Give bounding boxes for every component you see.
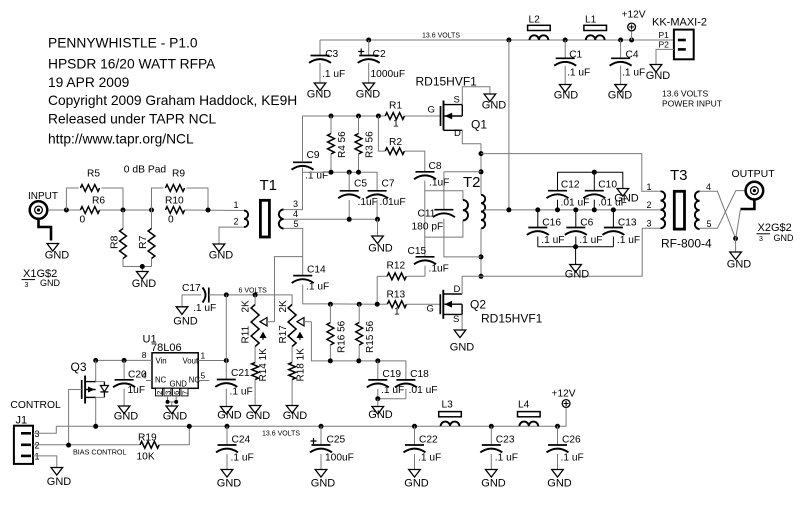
svg-text:.1 uF: .1 uF — [567, 67, 590, 78]
node supply drop — [506, 38, 511, 43]
capacitor C9 — [293, 161, 312, 163]
capacitor C10 — [593, 172, 595, 191]
svg-text:C4: C4 — [626, 49, 639, 60]
svg-text:1uF: 1uF — [128, 385, 146, 396]
diode Q3 body — [103, 382, 105, 398]
svg-text:C8: C8 — [429, 161, 442, 172]
wire J1 pin2 bias — [33, 444, 141, 446]
svg-text:NC: NC — [155, 375, 167, 384]
wire T1 pin3 — [284, 168, 303, 210]
svg-text:C5: C5 — [354, 179, 367, 190]
svg-text:C15: C15 — [408, 246, 427, 257]
svg-text:2: 2 — [35, 441, 40, 451]
capacitor C6 — [575, 210, 577, 228]
wire P2 to ground — [656, 49, 674, 64]
node C11 bottom tap — [479, 254, 484, 259]
resistor R8 — [122, 210, 124, 229]
node C10 top — [592, 170, 597, 175]
svg-text:GND: GND — [450, 342, 475, 354]
wire Q3 source to rail — [95, 397, 97, 426]
inductor L1 — [584, 25, 607, 30]
wire T2 rail top — [480, 144, 482, 195]
capacitor C7 — [368, 190, 387, 192]
svg-text:C11: C11 — [418, 209, 436, 220]
svg-text:2K: 2K — [278, 300, 289, 313]
svg-text:2: 2 — [234, 217, 239, 227]
ground C17 — [176, 307, 188, 315]
svg-text:T3: T3 — [670, 167, 688, 184]
svg-text:T2: T2 — [463, 174, 481, 191]
svg-text:G: G — [428, 105, 435, 116]
wire J1 pin3 — [33, 426, 56, 433]
svg-text:1000uF: 1000uF — [371, 69, 406, 80]
svg-text:D: D — [454, 128, 461, 139]
ic U1 78L06 box — [152, 353, 198, 389]
svg-text:0: 0 — [168, 215, 174, 226]
wire R11 wiper to pin5 — [275, 257, 303, 322]
resistor R10 — [165, 207, 184, 214]
wire Q3 gate — [69, 390, 82, 446]
svg-text:R1: R1 — [389, 101, 402, 112]
svg-text:.1 uF: .1 uF — [561, 453, 584, 464]
wire R10 right — [185, 209, 245, 212]
svg-text:POWER INPUT: POWER INPUT — [662, 99, 722, 109]
node C6 top — [573, 207, 578, 212]
wire T2 rail bottom — [480, 228, 482, 276]
node Vout junction — [224, 358, 229, 363]
svg-text:.1 uF: .1 uF — [306, 282, 329, 293]
svg-text:S: S — [453, 314, 459, 325]
svg-text:GND: GND — [368, 243, 393, 255]
svg-text:R3 56: R3 56 — [365, 131, 376, 158]
svg-text:P1: P1 — [659, 30, 670, 40]
svg-text:C9: C9 — [307, 150, 320, 161]
wire 6V rail — [209, 295, 292, 305]
capacitor C3 — [319, 40, 321, 56]
resistor R18 — [291, 347, 293, 363]
node R15 bottom — [356, 358, 361, 363]
svg-text:RF-800-4: RF-800-4 — [661, 237, 712, 251]
svg-text:4: 4 — [293, 209, 298, 219]
svg-text:Q1: Q1 — [471, 118, 487, 132]
svg-text:GND: GND — [565, 269, 590, 281]
node C13 top — [611, 207, 616, 212]
wire Vout riser to 6V rail — [225, 295, 227, 361]
svg-text:GND: GND — [45, 250, 70, 262]
ground cap bank — [570, 265, 582, 273]
ground C3 — [314, 83, 326, 91]
ground C19 C18 — [372, 407, 384, 415]
wire Q2 gate rail — [330, 303, 377, 305]
node T1 in — [206, 208, 211, 213]
transformer T1 core — [260, 200, 269, 237]
svg-text:C3: C3 — [325, 49, 338, 60]
ground R18 — [286, 406, 298, 414]
svg-text:Released under TAPR NCL: Released under TAPR NCL — [48, 112, 217, 127]
capacitor C24 — [226, 426, 228, 445]
transformer T3 secondary — [695, 191, 700, 229]
transistor Q3 — [81, 380, 83, 399]
ground C20 — [118, 406, 130, 414]
transistor Q1 — [440, 106, 442, 126]
svg-text:5: 5 — [294, 219, 299, 229]
svg-text:.1 uF: .1 uF — [381, 385, 404, 396]
node C12 bottom — [555, 207, 560, 212]
transformer T2 coupling winding — [463, 200, 468, 220]
capacitor C25 — [320, 426, 322, 445]
svg-text:GND: GND — [481, 478, 506, 490]
node C10 bottom — [592, 207, 597, 212]
node C7 bottom — [375, 217, 380, 222]
node pad gnd — [140, 264, 145, 269]
svg-text:GND: GND — [368, 409, 393, 421]
svg-text:GND: GND — [114, 411, 139, 423]
svg-text:C12: C12 — [561, 180, 580, 191]
svg-text:19 APR 2009: 19 APR 2009 — [48, 75, 130, 90]
wire output gnd stub — [735, 239, 737, 253]
svg-text:GND: GND — [209, 250, 234, 262]
svg-text:S: S — [454, 95, 460, 106]
svg-text:R4 56: R4 56 — [337, 131, 348, 158]
svg-text:GND: GND — [47, 476, 72, 488]
svg-text:10K: 10K — [137, 452, 155, 463]
svg-text:R5: R5 — [87, 169, 100, 180]
ground cap bracket — [617, 189, 629, 197]
node C5 top — [347, 170, 352, 175]
wire Q2 drain to T3 pin3 — [481, 228, 661, 276]
svg-text:1: 1 — [393, 119, 399, 130]
capacitor C8 — [416, 171, 435, 173]
node output gnd — [733, 236, 738, 241]
svg-text:.1 uF: .1 uF — [322, 69, 345, 80]
svg-text:GND: GND — [608, 89, 633, 101]
ground U1 — [166, 406, 178, 414]
wire input to pad — [48, 209, 81, 211]
power flag +12V top — [628, 23, 636, 31]
wire cap bank bottom — [538, 246, 614, 248]
ground C4 — [615, 85, 627, 93]
svg-text:8: 8 — [142, 350, 147, 360]
node Q3 drain — [93, 358, 98, 363]
svg-text:7: 7 — [180, 391, 189, 395]
capacitor C5 — [348, 172, 350, 191]
svg-text:1: 1 — [201, 351, 206, 361]
connector J1 — [14, 426, 33, 464]
svg-text:RD15HVF1: RD15HVF1 — [481, 312, 543, 326]
svg-text:C18: C18 — [410, 369, 429, 380]
svg-text:13.6 VOLTS: 13.6 VOLTS — [262, 431, 300, 438]
svg-text:GND: GND — [40, 278, 61, 288]
node R3 bottom — [356, 170, 361, 175]
svg-text:L2: L2 — [529, 15, 541, 26]
svg-text:BIAS CONTROL: BIAS CONTROL — [73, 448, 127, 457]
svg-text:Vout: Vout — [183, 357, 199, 366]
wire Q1 drain — [462, 130, 481, 144]
node R12 bottom — [375, 302, 380, 307]
svg-text:R8: R8 — [109, 235, 121, 249]
ground pad — [137, 272, 149, 280]
svg-text:.01 uF: .01 uF — [598, 197, 627, 208]
svg-text:180 pF: 180 pF — [412, 222, 444, 233]
resistor R5 — [80, 185, 99, 192]
svg-text:GND: GND — [173, 316, 198, 328]
wire Vout line — [198, 360, 226, 362]
ground output — [730, 252, 742, 260]
svg-text:.1uF: .1uF — [358, 197, 378, 208]
svg-text:R10: R10 — [165, 196, 184, 207]
capacitor C12 — [557, 172, 559, 191]
node Vout riser — [224, 292, 229, 297]
svg-text:3: 3 — [35, 429, 40, 439]
svg-text:.1 uF: .1 uF — [579, 235, 602, 246]
ground Q1 source — [484, 94, 496, 102]
svg-text:.1 uF: .1 uF — [495, 453, 518, 464]
svg-text:GND: GND — [554, 89, 579, 101]
wire R5 branch — [66, 188, 78, 210]
wire R12 drop — [376, 276, 378, 304]
svg-text:GND: GND — [217, 478, 242, 490]
svg-text:G: G — [427, 304, 434, 315]
svg-text:D: D — [454, 284, 461, 295]
svg-text:2K: 2K — [241, 300, 252, 313]
svg-text:INPUT: INPUT — [28, 191, 58, 202]
resistor R7 — [151, 210, 153, 229]
wire U1 pin5 stub — [198, 380, 209, 382]
wire T1 pin4 — [284, 218, 378, 220]
svg-text:GND: GND — [307, 89, 332, 101]
svg-text:.01 uF: .01 uF — [561, 197, 590, 208]
transformer T2 main winding — [481, 195, 485, 229]
svg-text:5: 5 — [201, 371, 206, 381]
svg-text:R14 1K: R14 1K — [258, 348, 269, 382]
wire +12V stub — [631, 31, 633, 40]
svg-text:GND: GND — [163, 411, 188, 423]
svg-text:C2: C2 — [373, 49, 386, 60]
svg-text:R19: R19 — [138, 433, 157, 444]
node C19 bottom — [375, 396, 380, 401]
svg-text:CONTROL: CONTROL — [10, 400, 61, 411]
inductor L2 — [528, 25, 551, 30]
svg-text:GND: GND — [283, 410, 308, 422]
wire 13.6V bottom rail — [56, 425, 566, 427]
svg-text:GND: GND — [547, 478, 572, 490]
svg-text:.1 uF: .1 uF — [622, 67, 645, 78]
svg-text:http://www.tapr.org/NCL: http://www.tapr.org/NCL — [48, 132, 194, 147]
svg-text:C19: C19 — [382, 369, 401, 380]
svg-text:C16: C16 — [542, 218, 561, 229]
svg-text:.1uF: .1uF — [429, 264, 449, 275]
svg-text:Vin: Vin — [156, 357, 167, 366]
wire Q3 drain up — [95, 360, 97, 381]
ground C26 — [552, 470, 564, 478]
svg-text:+12V: +12V — [622, 10, 646, 21]
transformer T1 primary — [244, 211, 248, 228]
node R4 bottom — [329, 170, 334, 175]
svg-text:.1 uF: .1 uF — [617, 235, 640, 246]
svg-text:C21: C21 — [231, 368, 250, 379]
svg-text:1: 1 — [35, 452, 40, 462]
capacitor C19 — [377, 361, 379, 380]
wire Q2 drain — [462, 276, 481, 294]
ground C24 — [221, 470, 233, 478]
svg-text:.1 uF: .1 uF — [231, 453, 254, 464]
capacitor C11 — [444, 171, 481, 173]
resistor R15 — [358, 304, 360, 322]
svg-text:3: 3 — [293, 199, 298, 209]
inductor L4 — [518, 412, 541, 417]
svg-text:1: 1 — [234, 200, 239, 210]
ground T1 pin2 — [213, 244, 225, 252]
node pad node1 — [121, 208, 126, 213]
potentiometer R11 — [254, 295, 256, 305]
svg-text:GND: GND — [246, 410, 271, 422]
capacitor C14 — [293, 275, 312, 277]
node Q3 gate bias — [66, 443, 71, 448]
node C5 bottom — [347, 217, 352, 222]
inductor L3 — [439, 412, 462, 417]
connector KK-MAXI-2 — [674, 30, 694, 60]
resistor R2 — [378, 116, 385, 151]
node cap bank gnd — [573, 244, 578, 249]
wire U1 pin4 stub — [146, 380, 152, 382]
svg-text:6 VOLTS: 6 VOLTS — [239, 288, 268, 295]
wire J1 pin1 gnd — [33, 456, 57, 468]
resistor R9 — [165, 185, 184, 192]
wire 13.6V top rail — [320, 39, 674, 41]
ground C21 — [221, 407, 233, 415]
node Q3 source rail — [93, 424, 98, 429]
resistor R4 — [330, 116, 332, 134]
ground C23 — [486, 470, 498, 478]
resistor R19 — [140, 441, 159, 448]
node C20 top — [122, 358, 127, 363]
wire bias feed line — [330, 361, 406, 380]
ground input connector — [47, 244, 59, 252]
svg-text:R11: R11 — [241, 325, 252, 343]
wire C17 gnd side — [182, 295, 201, 307]
transistor Q2 — [439, 294, 441, 314]
svg-text:.1 uF: .1 uF — [230, 387, 253, 398]
wire U1 gnd pins — [168, 396, 177, 402]
node R16 bottom — [328, 358, 333, 363]
wire R17 wiper drop — [311, 322, 330, 361]
potentiometer R17 — [288, 305, 296, 347]
svg-text:C17: C17 — [182, 283, 201, 294]
svg-text:C6: C6 — [580, 218, 593, 229]
power flag +12V bottom — [562, 400, 570, 408]
transformer T1 secondary — [279, 210, 284, 229]
capacitor C4 — [620, 40, 622, 58]
ground Q2 source — [454, 330, 466, 338]
node R2 tap — [376, 114, 381, 119]
node input junction — [64, 208, 69, 213]
svg-text:R7: R7 — [137, 235, 149, 249]
wire C8 bottom loop — [425, 181, 463, 200]
ground J1 pin1 — [51, 468, 63, 476]
svg-text:R9: R9 — [172, 169, 185, 180]
svg-text:2: 2 — [647, 200, 652, 210]
svg-text:GND: GND — [132, 278, 157, 290]
capacitor C18 — [396, 379, 415, 381]
transformer T3 primary — [661, 191, 666, 228]
wire Q1 gate rail — [303, 115, 386, 117]
node R19 rail — [187, 424, 192, 429]
svg-text:1: 1 — [394, 307, 400, 318]
svg-text:R12: R12 — [387, 261, 406, 272]
capacitor C15 — [416, 256, 435, 258]
transformer T3 core — [674, 191, 684, 229]
wire T1 pin2 to gnd — [219, 227, 244, 244]
svg-text:13.6 VOLTS: 13.6 VOLTS — [422, 33, 460, 40]
svg-text:R2: R2 — [389, 137, 402, 148]
wire T1 pin5 — [284, 228, 303, 275]
wire R9 branch — [152, 188, 164, 210]
ground T1 center tap — [372, 236, 384, 244]
ground C25 — [315, 470, 327, 478]
wire supply drop to tap — [508, 40, 510, 210]
svg-text:C14: C14 — [307, 265, 326, 276]
node C24 rail — [225, 424, 230, 429]
svg-text:C24: C24 — [232, 435, 251, 446]
svg-text:C7: C7 — [382, 179, 395, 190]
connector X2 output BNC — [746, 182, 764, 200]
capacitor C21 — [225, 361, 227, 380]
svg-text:L3: L3 — [442, 400, 454, 411]
wire C12 C10 bracket — [558, 172, 623, 188]
svg-text:GND: GND — [217, 410, 242, 422]
capacitor C17 — [203, 288, 206, 303]
svg-text:R18 1K: R18 1K — [296, 348, 307, 382]
wire gate bias line — [303, 172, 378, 191]
svg-text:R17: R17 — [278, 325, 289, 344]
svg-text:13.6 VOLTS: 13.6 VOLTS — [662, 89, 708, 99]
node C4 top — [618, 38, 623, 43]
node C22 rail — [412, 424, 417, 429]
node R15 top — [357, 302, 362, 307]
svg-text:C10: C10 — [598, 180, 617, 191]
svg-text:C26: C26 — [562, 435, 581, 446]
svg-text:J1: J1 — [16, 415, 28, 427]
svg-text:NC: NC — [189, 375, 201, 384]
svg-text:3: 3 — [25, 282, 29, 289]
svg-text:Q3: Q3 — [71, 360, 87, 374]
node C1 top — [563, 38, 568, 43]
node C16 top — [535, 207, 540, 212]
svg-text:GND: GND — [311, 478, 336, 490]
resistor R12 — [377, 275, 387, 277]
svg-text:+12V: +12V — [552, 389, 576, 400]
svg-text:C20: C20 — [128, 370, 147, 381]
svg-text:GND: GND — [170, 380, 188, 389]
svg-text:C23: C23 — [496, 435, 515, 446]
node R3 top — [356, 114, 361, 119]
svg-text:.01uF: .01uF — [380, 197, 406, 208]
svg-text:.1uF: .1uF — [429, 178, 449, 189]
svg-text:C25: C25 — [327, 435, 346, 446]
svg-text:GND: GND — [774, 233, 795, 243]
svg-text:Q2: Q2 — [470, 298, 486, 312]
node C23 rail — [489, 424, 494, 429]
svg-text:0 dB Pad: 0 dB Pad — [124, 165, 167, 176]
node C25 rail — [319, 424, 324, 429]
wire pad ground — [123, 266, 152, 268]
resistor R3 — [358, 116, 360, 134]
ground C22 — [409, 470, 421, 478]
wire Q1 drain to T3 pin1 — [481, 154, 661, 192]
resistor R14 — [254, 347, 256, 363]
wire center tap gnd — [377, 219, 379, 236]
node R11 top — [253, 292, 258, 297]
